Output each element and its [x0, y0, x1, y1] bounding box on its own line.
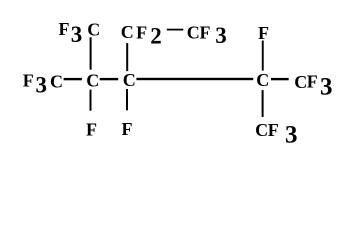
svg-text:F: F	[136, 22, 147, 42]
svg-text:C: C	[255, 120, 268, 140]
bond C1-C2	[100, 78, 119, 80]
bond C2-C3 long	[136, 78, 253, 80]
bond topleftC-C1 vertical	[90, 37, 92, 69]
svg-text:3: 3	[36, 72, 48, 97]
chemical structure skeletal formula	[0, 0, 359, 165]
svg-text:C: C	[86, 70, 99, 90]
svg-text:C: C	[50, 71, 63, 91]
bond C3-CF3 vertical	[262, 90, 264, 117]
svg-text:F: F	[307, 71, 318, 91]
svg-text:C: C	[87, 19, 100, 39]
svg-text:C: C	[187, 22, 200, 42]
svg-text:2: 2	[150, 23, 162, 48]
svg-text:C: C	[294, 72, 307, 92]
bond C2-F vertical	[126, 89, 128, 110]
svg-text:F: F	[23, 70, 34, 90]
svg-text:3: 3	[320, 73, 333, 100]
svg-text:F: F	[268, 120, 279, 140]
svg-text:F: F	[200, 22, 211, 42]
bond F3C-C1	[64, 78, 82, 80]
bond topF-C3 vertical	[262, 41, 264, 71]
svg-text:3: 3	[215, 23, 227, 48]
bond CF2-CF3 (top)	[167, 29, 184, 31]
svg-text:F: F	[59, 19, 70, 39]
svg-text:3: 3	[285, 122, 298, 149]
svg-text:C: C	[121, 22, 134, 42]
bond C1-F vertical	[90, 90, 92, 111]
svg-text:F: F	[258, 23, 269, 43]
bond CF2-C2 vertical	[126, 43, 128, 71]
bond C3-CF3	[271, 78, 289, 80]
svg-text:F: F	[86, 119, 97, 139]
svg-text:C: C	[256, 70, 269, 90]
svg-text:3: 3	[71, 22, 83, 47]
svg-text:C: C	[123, 70, 136, 90]
svg-text:F: F	[122, 119, 133, 139]
